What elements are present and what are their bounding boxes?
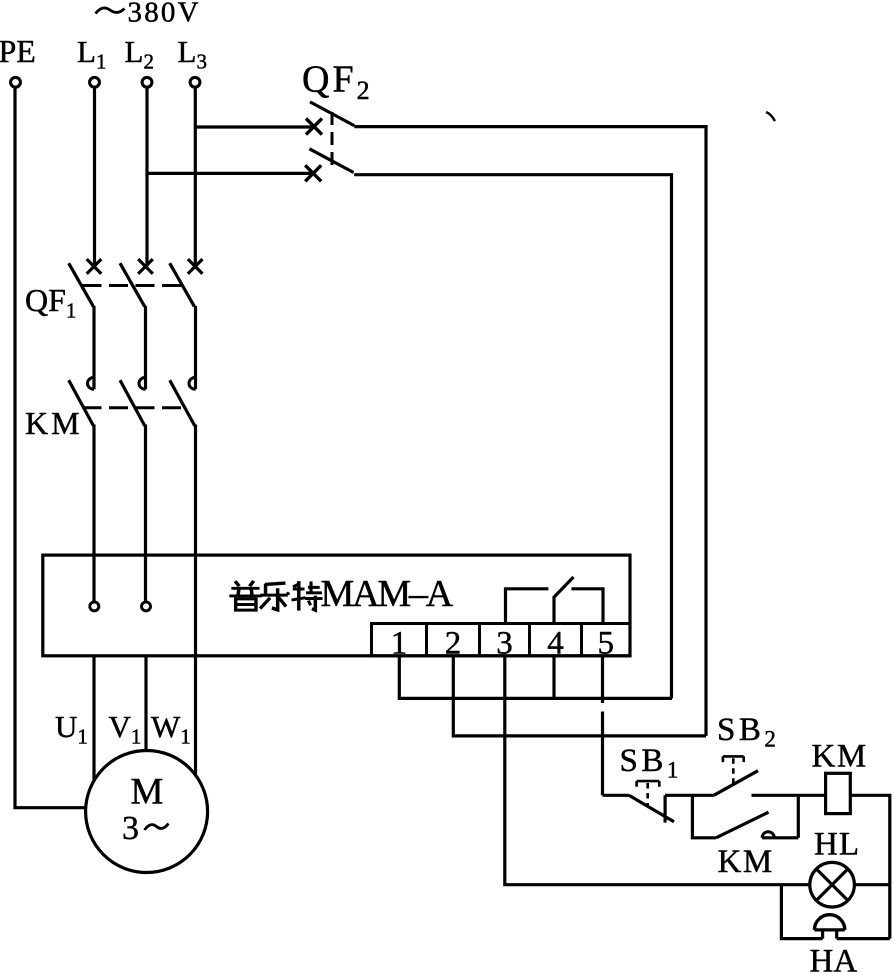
svg-text:3: 3 [122,810,139,847]
svg-text:4: 4 [547,626,564,662]
svg-text:5: 5 [598,626,615,662]
svg-text:380V: 380V [128,0,201,29]
svg-text:MAM–A: MAM–A [321,573,454,615]
svg-text:2: 2 [445,626,462,662]
svg-text:HL: HL [814,827,860,863]
svg-text:M: M [131,772,164,813]
svg-text:PE: PE [0,33,36,69]
svg-text:KM: KM [718,844,774,880]
svg-text:1: 1 [391,626,408,662]
svg-text:3: 3 [496,626,513,662]
svg-text:HA: HA [810,944,858,973]
svg-text:KM: KM [812,739,868,775]
svg-text:KM: KM [25,405,83,441]
